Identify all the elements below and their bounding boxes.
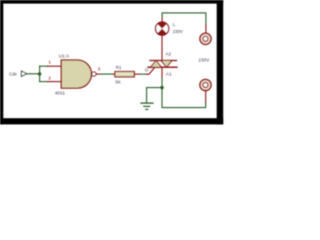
resistor R1 right pin: [134, 73, 140, 75]
svg-text:230V: 230V: [173, 29, 183, 34]
svg-text:R1: R1: [116, 65, 122, 70]
wire to pin 1: [40, 65, 48, 67]
svg-text:L: L: [173, 22, 176, 27]
wire lamp top run: [162, 13, 206, 25]
ground: [141, 103, 153, 109]
triac A1 pin: [161, 67, 163, 78]
svg-text:1: 1: [48, 59, 51, 64]
triac left triangle: [151, 61, 162, 68]
svg-text:G: G: [145, 68, 149, 73]
svg-text:4011: 4011: [55, 90, 66, 96]
node junction input branch: [38, 72, 41, 75]
pin 2 stub: [48, 81, 62, 83]
triac U2 top bar: [150, 60, 177, 62]
terminal top circle: [200, 33, 211, 44]
terminal bottom circle: [200, 79, 211, 90]
triac gate pin diagonal: [146, 67, 155, 74]
svg-text:230V: 230V: [198, 57, 210, 62]
svg-text:U1:A: U1:A: [59, 53, 70, 58]
triac bottom bar: [148, 66, 177, 68]
wire terminal to junction: [27, 73, 40, 75]
border frame: [0, 0, 223, 124]
triac right triangle: [161, 61, 172, 68]
lamp top pin: [161, 17, 163, 22]
terminal Cde input arrow: [21, 71, 26, 76]
svg-text:2: 2: [48, 76, 51, 81]
wire junction to ground: [147, 88, 162, 103]
terminal top pin stub: [205, 25, 207, 33]
pin 3 stub: [96, 73, 100, 75]
wire to pin 2: [40, 81, 48, 83]
wire A1 to junction: [161, 78, 163, 88]
gate inversion bubble: [92, 72, 96, 76]
svg-text:A2: A2: [165, 51, 171, 56]
wire lamp to triac: [161, 35, 163, 49]
gate U1:A 4011 NAND body: [61, 60, 91, 88]
terminal bottom pin stub: [205, 91, 207, 103]
svg-text:5K: 5K: [115, 80, 121, 85]
resistor R1 body: [115, 72, 134, 77]
wire gate output to resistor: [100, 73, 113, 75]
wire bottom run: [162, 88, 206, 108]
pin 1 stub: [48, 65, 62, 67]
wire input branch vertical: [39, 66, 41, 81]
svg-text:Cde: Cde: [9, 71, 17, 76]
svg-text:3: 3: [98, 66, 101, 71]
wire resistor to triac gate: [140, 73, 147, 75]
triac A2 pin: [161, 49, 163, 61]
node junction ground: [160, 86, 163, 89]
svg-text:A1: A1: [166, 72, 172, 77]
lamp L body: [156, 22, 169, 35]
resistor R1 left pin: [113, 73, 115, 75]
